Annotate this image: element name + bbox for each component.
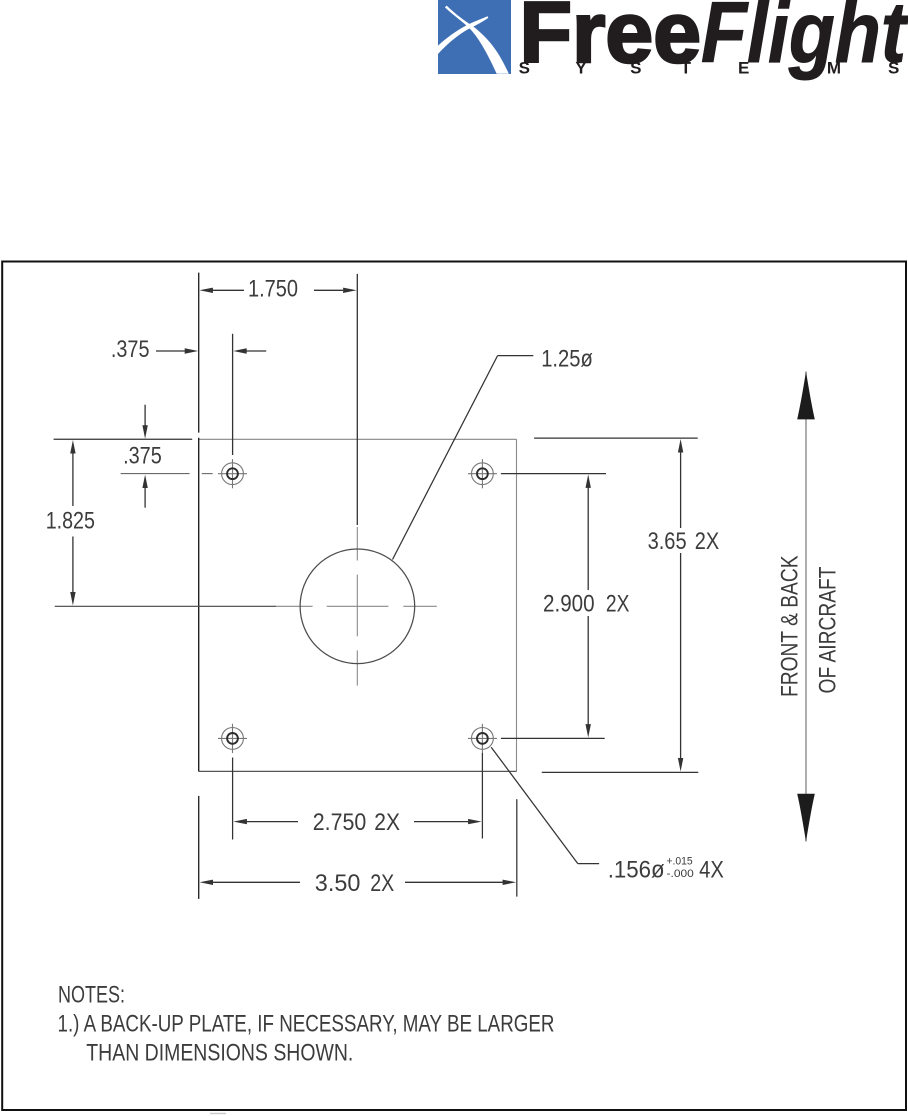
svg-text:+.015: +.015 xyxy=(667,856,693,868)
svg-text:NOTES:: NOTES: xyxy=(58,982,125,1009)
svg-text:THAN DIMENSIONS SHOWN.: THAN DIMENSIONS SHOWN. xyxy=(86,1040,353,1067)
svg-text:1.750: 1.750 xyxy=(248,276,298,303)
mounting hole top-right xyxy=(468,459,497,488)
circle horizontal centerline (left long segment doubles as 1.825 extension) xyxy=(55,605,276,607)
logo SYSTEMS letters xyxy=(519,59,900,78)
centerline vertical upper dark (circle center extension for 1.750) xyxy=(356,274,358,525)
drawing frame border xyxy=(2,262,906,1111)
svg-text:1.825: 1.825 xyxy=(46,508,95,535)
dimension 1.750 xyxy=(212,289,343,291)
dimension 2.750 2X xyxy=(233,819,247,824)
svg-text:-.000: -.000 xyxy=(667,868,694,880)
hole-center vertical extension (for .375 top) xyxy=(232,334,234,455)
front-back arrowhead top xyxy=(797,371,815,419)
leader 1.25 dia xyxy=(393,356,498,560)
dimension .375 vertical xyxy=(144,405,146,426)
dimension 2.900 2X xyxy=(586,474,591,488)
svg-text:2.900: 2.900 xyxy=(543,591,595,618)
svg-text:2X: 2X xyxy=(606,591,630,618)
logo contrail swoosh A (top-left to bottom-right) xyxy=(445,6,509,74)
leader .156 dia xyxy=(491,747,578,863)
extension line left lower (plate left edge extended down for 3.50) xyxy=(198,796,200,899)
dimension 1.825 xyxy=(70,440,75,454)
extension lines 2.900 top and bottom xyxy=(501,473,606,475)
centerline vertical gray dashes through big circle xyxy=(356,527,358,561)
svg-text:S: S xyxy=(630,59,641,78)
front-back arrowhead bottom xyxy=(797,794,815,842)
svg-text:M: M xyxy=(827,59,841,78)
plate outline bottom edge xyxy=(199,770,517,772)
svg-text:Flight: Flight xyxy=(701,0,908,81)
faint scan artifact below frame xyxy=(210,1113,226,1115)
svg-text:.375: .375 xyxy=(111,336,150,363)
extension line plate top edge extended left xyxy=(54,438,193,440)
svg-text:.375: .375 xyxy=(123,443,162,470)
svg-text:E: E xyxy=(738,59,749,78)
extension line left upper (plate left edge extended up for 1.750) xyxy=(198,273,200,433)
mounting hole top-left xyxy=(218,459,247,488)
svg-text:T: T xyxy=(681,59,692,78)
svg-text:.156ø: .156ø xyxy=(608,856,665,883)
extension line right lower (plate right edge extended down for 3.50) xyxy=(516,799,518,896)
extension lines below holes for 2.750 xyxy=(232,758,234,840)
svg-text:2X: 2X xyxy=(370,870,394,897)
big circle 1.25 dia xyxy=(300,549,415,664)
svg-text:4X: 4X xyxy=(699,856,724,883)
svg-text:2X: 2X xyxy=(695,528,719,555)
dimension 3.65 2X xyxy=(678,439,683,453)
hole-center horizontal extension left (top-left hole) xyxy=(121,473,190,475)
svg-text:FRONT & BACK: FRONT & BACK xyxy=(777,556,804,698)
mounting hole bottom-left xyxy=(218,724,247,753)
mounting hole bottom-right xyxy=(468,724,497,753)
extension lines 3.65 top and bottom xyxy=(534,437,698,439)
svg-text:1.) A BACK-UP PLATE, IF NECESS: 1.) A BACK-UP PLATE, IF NECESSARY, MAY B… xyxy=(58,1011,555,1038)
front-back direction arrow shaft xyxy=(805,372,807,842)
plate outline left edge xyxy=(198,438,200,772)
svg-text:Free: Free xyxy=(520,0,702,81)
dimension 3.50 2X xyxy=(200,880,214,885)
svg-text:3.65: 3.65 xyxy=(648,528,687,555)
svg-text:2X: 2X xyxy=(374,809,400,836)
plate outline top edge xyxy=(199,438,517,440)
svg-text:OF AIRCRAFT: OF AIRCRAFT xyxy=(815,566,842,693)
svg-text:1.25ø: 1.25ø xyxy=(541,345,593,372)
logo blue square xyxy=(438,0,511,74)
plate outline right edge xyxy=(516,439,518,771)
svg-text:Y: Y xyxy=(575,59,587,78)
svg-text:3.50: 3.50 xyxy=(315,870,361,897)
svg-text:2.750: 2.750 xyxy=(313,809,367,836)
svg-text:S: S xyxy=(888,59,899,78)
logo contrail swoosh B (top-right to bottom-left) xyxy=(438,16,488,54)
svg-text:S: S xyxy=(519,59,530,78)
